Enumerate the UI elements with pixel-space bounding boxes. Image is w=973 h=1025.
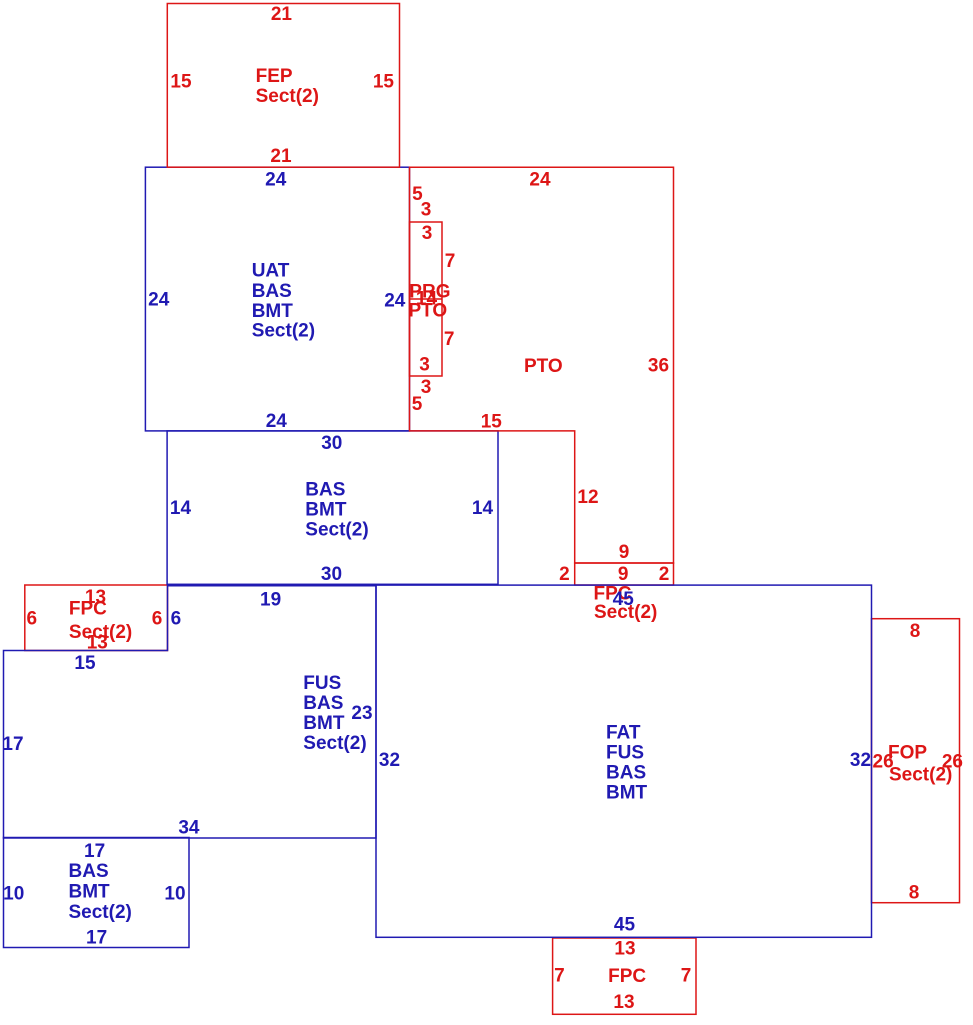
FOP Sect(2) box bbox=[872, 619, 960, 903]
svg-text:7: 7 bbox=[554, 965, 565, 986]
svg-text:9: 9 bbox=[619, 542, 630, 563]
svg-text:17: 17 bbox=[84, 841, 105, 862]
svg-text:9: 9 bbox=[618, 564, 629, 585]
svg-text:UAT: UAT bbox=[252, 260, 290, 281]
svg-text:BMT: BMT bbox=[606, 783, 648, 804]
svg-text:32: 32 bbox=[379, 750, 400, 771]
svg-text:34: 34 bbox=[178, 817, 200, 838]
svg-text:3: 3 bbox=[422, 223, 433, 244]
svg-text:FOP: FOP bbox=[888, 743, 927, 764]
svg-text:6: 6 bbox=[152, 608, 163, 629]
svg-text:23: 23 bbox=[351, 703, 372, 724]
svg-text:24: 24 bbox=[148, 290, 170, 311]
svg-text:32: 32 bbox=[850, 750, 871, 771]
svg-text:Sect(2): Sect(2) bbox=[256, 86, 319, 107]
svg-text:30: 30 bbox=[321, 433, 342, 454]
svg-text:BAS: BAS bbox=[69, 861, 109, 882]
svg-text:45: 45 bbox=[613, 589, 635, 610]
FAT FUS BAS BMT box bbox=[376, 585, 872, 937]
svg-text:24: 24 bbox=[265, 169, 287, 190]
svg-text:15: 15 bbox=[74, 653, 96, 674]
BAS BMT Sect(2) box bbox=[167, 431, 498, 584]
svg-text:Sect(2): Sect(2) bbox=[889, 764, 952, 785]
svg-text:BMT: BMT bbox=[252, 301, 294, 322]
svg-text:21: 21 bbox=[271, 4, 293, 25]
svg-text:3: 3 bbox=[419, 355, 430, 376]
svg-text:15: 15 bbox=[170, 72, 192, 93]
svg-text:BAS: BAS bbox=[303, 693, 343, 714]
svg-text:BMT: BMT bbox=[69, 881, 111, 902]
svg-text:BAS: BAS bbox=[606, 763, 646, 784]
svg-text:13: 13 bbox=[613, 992, 634, 1013]
svg-text:45: 45 bbox=[614, 914, 636, 935]
svg-text:Sect(2): Sect(2) bbox=[252, 321, 315, 342]
svg-text:FEP: FEP bbox=[256, 66, 293, 87]
svg-text:3: 3 bbox=[421, 377, 432, 398]
PTO polygon bbox=[410, 167, 674, 563]
FUS BAS BMT Sect(2) polygon bbox=[4, 586, 377, 838]
svg-text:12: 12 bbox=[577, 487, 598, 508]
svg-text:BAS: BAS bbox=[305, 479, 345, 500]
svg-text:30: 30 bbox=[321, 564, 342, 585]
svg-text:15: 15 bbox=[373, 72, 395, 93]
svg-text:17: 17 bbox=[86, 928, 107, 949]
svg-text:36: 36 bbox=[648, 356, 669, 377]
svg-text:19: 19 bbox=[260, 590, 281, 611]
svg-text:7: 7 bbox=[445, 251, 456, 272]
svg-text:6: 6 bbox=[171, 608, 182, 629]
svg-text:14: 14 bbox=[472, 498, 494, 519]
svg-text:BMT: BMT bbox=[303, 713, 345, 734]
small PRG/PTO box bbox=[410, 222, 443, 376]
small box divider bbox=[410, 298, 443, 300]
svg-text:BMT: BMT bbox=[305, 500, 347, 521]
FEP Sect(2) box bbox=[167, 4, 399, 168]
svg-text:2: 2 bbox=[559, 564, 570, 585]
svg-text:Sect(2): Sect(2) bbox=[305, 519, 368, 540]
svg-text:BAS: BAS bbox=[252, 281, 292, 302]
svg-text:17: 17 bbox=[2, 734, 23, 755]
svg-text:PTO: PTO bbox=[524, 356, 563, 377]
svg-text:2: 2 bbox=[659, 564, 670, 585]
svg-text:FUS: FUS bbox=[303, 673, 341, 694]
svg-text:8: 8 bbox=[909, 883, 920, 904]
bottom-left BAS BMT Sect(2) box bbox=[4, 838, 190, 948]
svg-text:6: 6 bbox=[27, 608, 38, 629]
svg-text:Sect(2): Sect(2) bbox=[69, 902, 132, 923]
svg-text:14: 14 bbox=[170, 498, 192, 519]
bottom FPC box bbox=[553, 938, 696, 1014]
svg-text:15: 15 bbox=[481, 412, 503, 433]
svg-text:5: 5 bbox=[412, 394, 423, 415]
svg-text:21: 21 bbox=[270, 146, 292, 167]
svg-text:24: 24 bbox=[266, 411, 288, 432]
svg-text:FAT: FAT bbox=[606, 722, 641, 743]
svg-text:Sect(2): Sect(2) bbox=[303, 733, 366, 754]
svg-text:PTO: PTO bbox=[409, 301, 448, 322]
svg-text:FPC: FPC bbox=[608, 966, 646, 987]
FPC Sect(2) left box bbox=[25, 585, 168, 651]
svg-text:13: 13 bbox=[614, 939, 635, 960]
svg-text:FPC: FPC bbox=[69, 598, 107, 619]
svg-text:7: 7 bbox=[681, 965, 692, 986]
svg-text:FUS: FUS bbox=[606, 743, 644, 764]
FPC 9x2 box bbox=[575, 563, 674, 585]
svg-text:7: 7 bbox=[444, 329, 455, 350]
UAT BAS BMT Sect(2) box bbox=[145, 167, 409, 431]
svg-text:24: 24 bbox=[529, 170, 551, 191]
svg-text:8: 8 bbox=[910, 621, 921, 642]
svg-text:10: 10 bbox=[164, 884, 185, 905]
svg-text:3: 3 bbox=[421, 200, 432, 221]
svg-text:10: 10 bbox=[3, 884, 24, 905]
svg-text:24: 24 bbox=[384, 291, 406, 312]
